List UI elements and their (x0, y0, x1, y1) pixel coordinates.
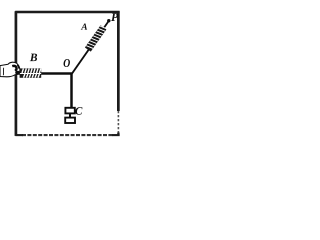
weight C: lower block (65, 118, 75, 123)
spring A (diagonal coil) (85, 25, 107, 52)
label B (30, 54, 37, 61)
frame right wall bottom stub (117, 133, 119, 136)
frame top wall (15, 11, 119, 14)
frame bottom wall right stub (112, 134, 120, 136)
frame bottom wall (dashed) (22, 134, 113, 136)
weight C: link (69, 113, 71, 118)
wire: vertical cord from node O down to weight C (70, 74, 73, 109)
frame right wall (upper solid) (117, 11, 120, 111)
label A (81, 23, 87, 29)
frame bottom wall left stub (15, 134, 23, 136)
frame left wall (15, 11, 18, 136)
frame right wall (lower dashed) (117, 111, 119, 133)
label O (64, 59, 70, 67)
point P dot (107, 19, 110, 22)
spring B (horizontal coil) (20, 68, 42, 77)
label C (75, 107, 82, 115)
hand pulling spring B through left wall (0, 62, 20, 77)
label P (111, 13, 118, 21)
wire: horizontal cord from hand to node O (17, 72, 72, 74)
background (0, 0, 132, 142)
wire: diagonal cord from node O to point P (72, 21, 109, 74)
weight C: upper block (65, 108, 74, 114)
